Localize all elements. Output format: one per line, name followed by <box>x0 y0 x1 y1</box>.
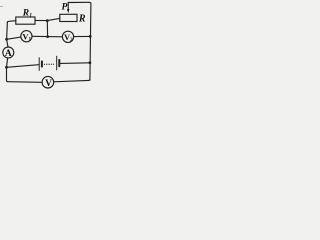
battery dotted gap <box>45 63 54 65</box>
svg-text:R: R <box>78 13 86 24</box>
wire bottom-left vertical <box>7 67 8 81</box>
wire left junction to V1 <box>7 37 21 39</box>
wire V1 to mid junction <box>32 35 48 37</box>
voltmeter V1 <box>21 31 32 42</box>
node mid junction <box>46 35 49 38</box>
wire cell2 to right vertical <box>60 62 90 65</box>
wire top-left corner and left vertical <box>6 22 9 39</box>
battery cell2 long plate <box>56 56 58 70</box>
stray mark left edge <box>0 5 3 7</box>
resistor R1 <box>16 17 35 24</box>
battery cell2 short plate <box>58 60 60 66</box>
wire V2 to right vertical <box>74 35 91 37</box>
wire battery junction to cell1 <box>7 65 39 68</box>
rheostat R box <box>60 14 77 21</box>
wire bottom to voltmeter V <box>8 81 42 84</box>
voltmeter V <box>42 76 54 88</box>
wire top-left horizontal to R1 <box>7 21 16 22</box>
wire left junction down to ammeter <box>7 39 8 47</box>
svg-text:A: A <box>5 49 12 59</box>
svg-text:P: P <box>62 2 68 12</box>
node left junction <box>5 38 8 41</box>
wire mid junction to V2 <box>48 36 63 38</box>
node battery-left junction <box>5 66 8 69</box>
wire R1 to top junction <box>35 19 47 21</box>
ammeter A <box>3 47 14 58</box>
wire top junction to rheostat <box>47 18 60 20</box>
slider arrow P <box>67 3 69 10</box>
battery cell1 short plate <box>41 61 43 66</box>
node battery-right junction <box>89 61 92 64</box>
node right mid junction <box>89 35 92 38</box>
wire slider to top-right corner, right vertical <box>68 2 91 80</box>
wire mid connector vertical <box>46 21 48 37</box>
wire V to bottom-right corner <box>54 79 90 82</box>
voltmeter V2 <box>62 31 73 42</box>
svg-text:V: V <box>45 79 52 89</box>
battery cell1 long plate <box>38 58 40 71</box>
node top junction <box>46 19 49 22</box>
wire ammeter to battery junction <box>7 58 8 67</box>
